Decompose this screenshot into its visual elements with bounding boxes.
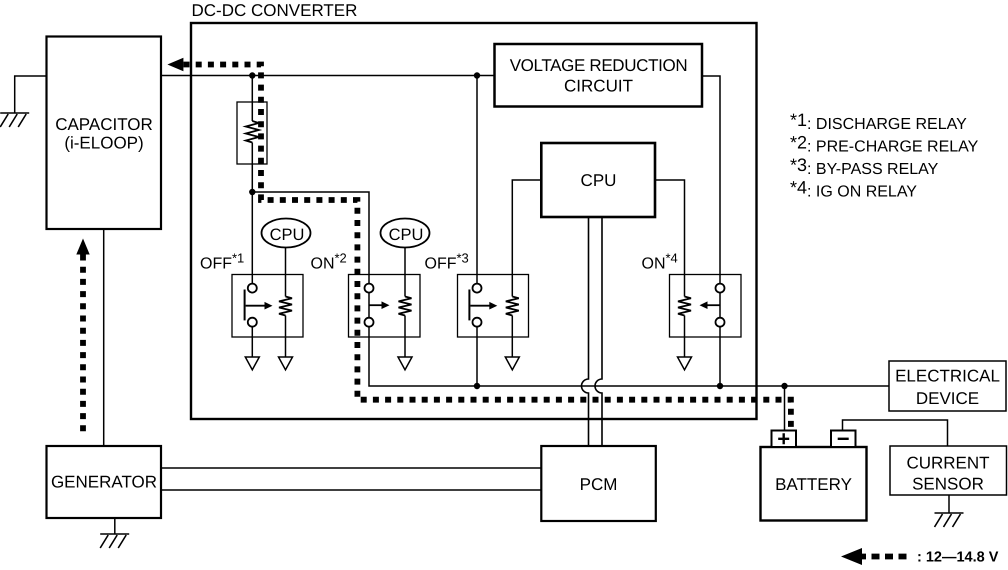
wire CPU oval 2 to relay2 coil — [404, 248, 406, 297]
CPU oval (relay 1 driver) — [262, 219, 311, 248]
wire generator to PCM (lower) — [161, 489, 541, 491]
svg-text:SENSOR: SENSOR — [912, 475, 984, 494]
current sensor box — [890, 446, 1007, 495]
relay2 lower contact circle — [365, 318, 374, 327]
capacitor (i-ELOOP) box — [47, 37, 162, 230]
ground chassis (capacitor) — [0, 113, 29, 127]
battery + terminal — [772, 431, 797, 448]
relay4 coil zigzag — [678, 297, 691, 316]
relay2 coil zigzag — [399, 297, 412, 316]
precharge resistor box — [237, 102, 267, 164]
ground chassis (generator) — [100, 534, 129, 548]
relay4 arrow (pointing left) — [707, 304, 721, 306]
wire: main bus capacitor to voltage reduction circuit — [161, 75, 495, 77]
relay 3 (by-pass relay, OFF) box — [458, 275, 529, 338]
svg-text:(i-ELOOP): (i-ELOOP) — [64, 134, 143, 153]
node F (battery + / device bus) — [781, 383, 787, 389]
wire through resistor — [251, 76, 253, 122]
relay3 contact lower wire — [476, 327, 478, 386]
relay3 upper contact circle — [473, 284, 482, 293]
wire current sensor to ground — [948, 495, 950, 513]
node A (resistor top / main bus) — [249, 72, 255, 78]
relay3 contact upper wire — [476, 76, 478, 284]
node B (relay3 contact / main bus) — [474, 72, 480, 78]
relay3 armature bar — [468, 290, 470, 321]
svg-text:CURRENT: CURRENT — [906, 454, 989, 473]
relay2 upper contact circle — [365, 284, 374, 293]
relay4 upper contact circle — [716, 284, 725, 293]
voltage reduction circuit box — [495, 44, 703, 107]
wire: CPU left to relay3 coil — [512, 180, 541, 297]
wire: capacitor bottom to generator — [103, 229, 105, 446]
relay2 arrow — [369, 304, 383, 306]
relay1 contact ground triangle — [245, 357, 259, 370]
svg-text:PCM: PCM — [580, 475, 618, 494]
wire CPU to PCM line 1 (with hop) — [582, 217, 589, 446]
wire generator to PCM (upper) — [161, 467, 541, 469]
relay1 coil zigzag — [279, 297, 292, 316]
relay4 coil ground triangle — [678, 357, 692, 370]
svg-text:DC-DC CONVERTER: DC-DC CONVERTER — [192, 1, 358, 20]
ground chassis (current sensor) — [935, 513, 964, 527]
wire: relay2 feed and electrical device bus — [252, 192, 889, 386]
relay1 lower contact circle — [248, 318, 257, 327]
relay1 upper contact circle — [248, 284, 257, 293]
dashed regen path (generator to capacitor) — [80, 255, 86, 435]
relay1 contact lower wire — [251, 327, 253, 357]
svg-text:GENERATOR: GENERATOR — [51, 473, 157, 492]
relay1 armature bar — [244, 290, 246, 321]
relay 1 (discharge relay, OFF) box — [232, 275, 303, 338]
relay 4 (IG ON relay, ON, mirrored) box — [670, 275, 742, 338]
svg-text:BATTERY: BATTERY — [775, 475, 852, 494]
relay3 coil zigzag — [506, 297, 519, 316]
wire CPU oval 1 to relay1 coil — [285, 248, 287, 297]
dashed arrow head at capacitor — [167, 58, 183, 71]
svg-text:CAPACITOR: CAPACITOR — [55, 115, 153, 134]
legend arrow 12-14.8V — [858, 554, 911, 560]
svg-text:: 12—14.8 V: : 12—14.8 V — [917, 550, 999, 566]
relay2 coil lower wire — [404, 316, 406, 358]
wire capacitor left to ground — [15, 76, 47, 113]
wire: CPU right to relay4 coil — [655, 180, 685, 297]
battery box — [761, 447, 867, 521]
resistor zigzag — [246, 121, 259, 143]
CPU box — [541, 143, 655, 217]
dashed power flow path (capacitor to battery) — [184, 65, 791, 430]
relay1 coil ground triangle — [279, 357, 293, 370]
node D (relay3 contact / device bus) — [474, 383, 480, 389]
relay3 coil ground triangle — [505, 357, 519, 370]
relay3 arrow — [470, 305, 490, 307]
svg-text:DEVICE: DEVICE — [916, 389, 979, 408]
CPU oval (relay 2 driver) — [381, 219, 430, 248]
svg-text:ELECTRICAL: ELECTRICAL — [895, 367, 1000, 386]
node C (resistor bottom / relay1-relay2 feed) — [249, 189, 255, 195]
wire battery - to current sensor — [843, 420, 948, 446]
relay2 coil ground triangle — [398, 357, 412, 370]
node E (relay4 contact / device bus) — [717, 383, 723, 389]
dashed regen arrow head — [76, 239, 89, 255]
wire CPU to PCM line 2 (with hop) — [595, 217, 602, 446]
svg-text:CPU: CPU — [389, 226, 424, 244]
wire: voltage reduction right to relay4 contact — [702, 76, 720, 386]
wire electrical-device bus to battery + — [784, 386, 786, 431]
relay4 coil lower wire — [684, 316, 686, 358]
svg-text:CPU: CPU — [581, 171, 617, 190]
relay 2 (pre-charge relay, ON) box — [349, 275, 421, 338]
relay1 coil lower wire — [285, 316, 287, 358]
svg-text:VOLTAGE REDUCTION: VOLTAGE REDUCTION — [510, 56, 688, 75]
PCM box — [541, 446, 656, 521]
battery - terminal — [831, 431, 856, 448]
wire generator to ground — [114, 518, 116, 534]
electrical device box — [889, 361, 1006, 411]
svg-text:CPU: CPU — [270, 226, 305, 244]
relay4 lower contact circle — [716, 318, 725, 327]
svg-text:CIRCUIT: CIRCUIT — [564, 77, 633, 96]
generator box — [47, 446, 162, 518]
relay3 coil lower wire — [511, 316, 513, 358]
relay1 arrow — [246, 305, 266, 307]
DC-DC converter outer box — [191, 23, 757, 419]
relay3 lower contact circle — [473, 318, 482, 327]
